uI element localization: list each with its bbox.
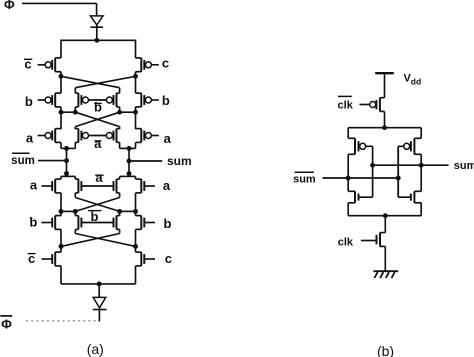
- wire sumbar output line: [323, 177, 399, 179]
- wire row2 inner gate net bbar: [89, 99, 107, 101]
- svg-text:a: a: [164, 131, 172, 146]
- node row4 split L: [64, 171, 69, 176]
- svg-text:c: c: [165, 251, 172, 266]
- wire row5 to junction row y246: [61, 229, 136, 246]
- node J3 a: [59, 209, 64, 214]
- wire row4 split left: [61, 174, 75, 180]
- transistor N4 gate a (row4 outer-right NMOS): [136, 179, 156, 193]
- svg-text:c: c: [162, 55, 169, 70]
- transistor N8 gate b (row5 outer-right NMOS): [136, 216, 156, 230]
- wire row5 inner gate net bbar: [81, 222, 113, 224]
- transistor P4 (row2 inner-left PMOS, gate bbar): [75, 93, 88, 107]
- wire row2 to junction row y112: [61, 107, 136, 129]
- node J2 a: [59, 110, 64, 115]
- label clkbar PB1: [338, 96, 354, 111]
- wire top rail right drop: [135, 40, 137, 58]
- transistor P1 gate cbar (row1 left PMOS): [38, 58, 61, 72]
- svg-text:(b): (b): [377, 343, 394, 357]
- wire Phibar dotted: [26, 320, 96, 322]
- node top-center junction: [94, 38, 99, 43]
- label sumbar (b): [293, 172, 316, 185]
- node row4 split R: [127, 171, 132, 176]
- svg-text:a: a: [30, 178, 38, 193]
- wire latch bottom to clk NMOS: [384, 216, 386, 233]
- transistor N5 gate bdot (row5 outer-left NMOS): [42, 216, 62, 230]
- node J1L: [59, 74, 64, 79]
- transistor N7 (row5 inner-right NMOS, gate bbar): [114, 216, 120, 230]
- wire Phi to inverter: [22, 3, 97, 16]
- wire row4 to junction row y211: [61, 193, 136, 212]
- wire row4 split right: [120, 174, 136, 180]
- wire latch gate vertical right: [397, 146, 399, 197]
- label bbar row5: [88, 209, 102, 224]
- wire cross X1: [61, 76, 136, 93]
- wire cross X3: [75, 198, 119, 212]
- diode/inverter D2 bottom (clock driver): [93, 284, 107, 322]
- svg-text:sum: sum: [293, 173, 316, 185]
- transistor N10 gate c (row6 right NMOS): [136, 252, 156, 266]
- svg-text:sum: sum: [454, 160, 474, 172]
- wire to latch top rail: [384, 111, 386, 127]
- diode/inverter D1 top (clock driver): [90, 16, 103, 40]
- transistor P7 gate a (row3 outer-left PMOS): [38, 129, 61, 143]
- node sumbar merge: [64, 146, 69, 151]
- transistor P3 gate b (row2 outer-left PMOS): [38, 93, 61, 107]
- label cbar N9: [28, 251, 36, 266]
- wire latch top rail: [348, 128, 421, 139]
- label bdot N5: [29, 215, 37, 230]
- node J3 c: [117, 209, 122, 214]
- wire sum rail: [129, 160, 162, 162]
- node J3 b: [73, 209, 78, 214]
- svg-text:b: b: [94, 100, 102, 115]
- ground symbol: [373, 271, 398, 278]
- power Vdd bar: [375, 72, 394, 74]
- top rail: [61, 39, 136, 41]
- svg-text:Φ: Φ: [1, 316, 12, 331]
- transistor NB2 (latch right NMOS): [398, 191, 421, 203]
- wire row1 to junction row: [61, 72, 136, 93]
- svg-text:b: b: [162, 93, 170, 108]
- node sum merge: [127, 146, 132, 151]
- transistor P2 gate c (row1 right PMOS): [136, 58, 159, 72]
- wire latch mid columns: [348, 154, 421, 191]
- transistor N3 (row4 inner-right NMOS, gate abar): [114, 179, 120, 193]
- wire cross X4: [61, 234, 136, 247]
- svg-text:dd: dd: [411, 76, 421, 86]
- node sumbar-gateR: [396, 176, 401, 181]
- transistor P8 (row3 inner-left PMOS, gate abar): [75, 129, 88, 143]
- label abar row4: [95, 170, 103, 185]
- node J2 c: [117, 110, 122, 115]
- transistor N9 gate cbar (row6 left NMOS): [42, 252, 62, 266]
- node J4L: [59, 244, 64, 249]
- label Vdd: [404, 73, 422, 87]
- wire top rail left drop: [60, 40, 62, 58]
- transistor N1 gate a (row4 outer-left NMOS): [42, 179, 62, 193]
- svg-text:Φ: Φ: [4, 0, 15, 12]
- node sumbar tap: [64, 158, 69, 163]
- wire row3 bottoms merge to sum tap: [120, 142, 136, 173]
- wire row3 bottoms merge to sumbar tap: [61, 142, 75, 173]
- wire to ground: [384, 246, 386, 271]
- svg-text:b: b: [25, 94, 33, 109]
- wire J3 links and drops: [61, 211, 136, 215]
- svg-text:clk: clk: [338, 99, 354, 111]
- node Phibar label: [0, 316, 12, 331]
- transistor N2 (row4 inner-left NMOS, gate abar): [75, 179, 81, 193]
- node J4R: [133, 244, 138, 249]
- transistor PB1 gate clkbar (precharge PMOS): [360, 98, 385, 112]
- svg-text:sum: sum: [11, 155, 35, 167]
- node sum-colR: [419, 163, 424, 168]
- transistor P6 gate b (row2 outer-right PMOS): [136, 93, 159, 107]
- label bbar row2: [94, 100, 102, 115]
- transistor NB3 gate clk (evaluate NMOS): [361, 233, 385, 247]
- wire row4 inner gate net abar: [81, 185, 113, 187]
- node J3 d: [133, 209, 138, 214]
- node J2 d: [133, 110, 138, 115]
- wire latch bottom rail: [348, 203, 421, 216]
- transistor PB3 (latch right PMOS): [398, 138, 421, 154]
- label sumbar: [11, 153, 35, 167]
- svg-text:c: c: [24, 56, 31, 71]
- svg-text:a: a: [94, 136, 102, 151]
- node latch bottom: [383, 213, 388, 218]
- svg-text:a: a: [163, 178, 171, 193]
- transistor PB2 (latch left PMOS): [348, 138, 372, 154]
- node J1R: [133, 74, 138, 79]
- svg-text:(a): (a): [87, 341, 104, 357]
- wire row3 inner gate net abar: [89, 135, 107, 137]
- svg-text:sum: sum: [167, 154, 192, 168]
- transistor P9 (row3 inner-right PMOS, gate abar): [106, 129, 119, 143]
- node sumbar-colL: [346, 176, 351, 181]
- svg-text:clk: clk: [338, 236, 354, 248]
- svg-text:a: a: [95, 170, 103, 185]
- node sum-gateL: [370, 163, 375, 168]
- svg-text:a: a: [26, 131, 34, 146]
- node sum tap: [127, 159, 132, 164]
- wire J4 drops: [61, 246, 136, 252]
- wire sum output line: [373, 164, 449, 166]
- label cbar P1: [24, 56, 32, 71]
- transistor P5 (row2 inner-right PMOS, gate bbar): [106, 93, 119, 107]
- node latch top: [382, 125, 387, 130]
- wire row6 to bottom rail: [61, 266, 136, 284]
- label abar row3: [94, 136, 102, 151]
- svg-text:b: b: [29, 215, 37, 230]
- node bottom-center junction: [97, 281, 102, 286]
- transistor N6 (row5 inner-left NMOS, gate bbar): [75, 216, 81, 230]
- transistor P10 gate a (row3 outer-right PMOS): [136, 129, 159, 143]
- wire latch gate vertical left: [372, 146, 374, 197]
- transistor NB1 (latch left NMOS): [348, 191, 372, 203]
- svg-text:b: b: [164, 216, 172, 231]
- node J2 b: [73, 110, 78, 115]
- wire Vdd drop: [384, 73, 386, 98]
- wire sumbar rail: [38, 160, 67, 162]
- wire cross X2: [75, 112, 119, 129]
